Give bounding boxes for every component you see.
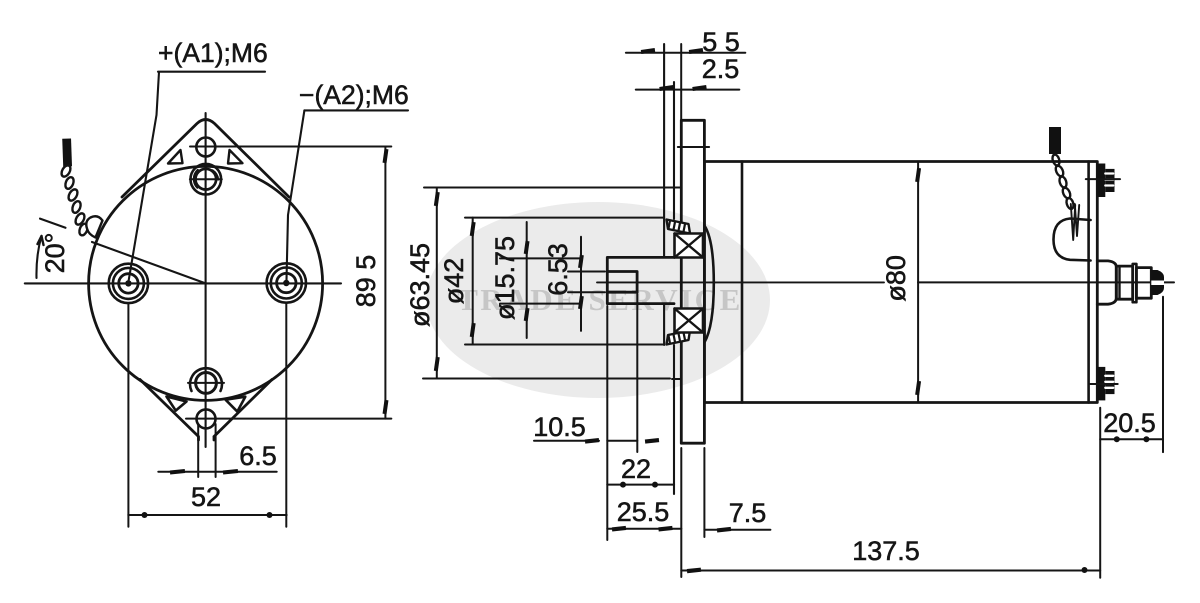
bearing retainer face line <box>663 44 665 257</box>
bottom bolt <box>190 368 222 391</box>
dim 2.5 line <box>636 89 740 91</box>
rear chain links <box>1051 154 1075 210</box>
dim o63.45 <box>424 187 681 189</box>
svg-text:7.5: 7.5 <box>729 498 767 528</box>
dim 25.5 <box>607 528 681 530</box>
main terminal bushing <box>1097 261 1116 304</box>
chain front links <box>60 164 89 237</box>
bottom-left cutout <box>167 397 187 411</box>
chain lug on flange <box>86 216 102 237</box>
52 dots <box>142 512 148 518</box>
bottom seal parallelogram <box>667 331 691 345</box>
dim 20.5 <box>1100 438 1163 440</box>
top bolt <box>191 164 222 195</box>
underline A2 <box>304 109 408 111</box>
flange plate <box>681 120 704 443</box>
svg-text:10.5: 10.5 <box>533 412 586 442</box>
20deg diagonal line <box>92 242 206 283</box>
52 ext right <box>285 303 287 527</box>
svg-text:89 5: 89 5 <box>351 255 381 308</box>
dim 10.5 <box>534 440 599 442</box>
bottom hole <box>197 409 216 428</box>
bottom terminal stud <box>1090 367 1118 401</box>
6.5 dim line <box>158 471 276 473</box>
20deg outer segment <box>40 219 66 228</box>
svg-text:5 5: 5 5 <box>702 27 740 57</box>
svg-text:25.5: 25.5 <box>617 497 670 527</box>
dim o42 <box>465 217 664 219</box>
89.5 dim line <box>384 147 386 419</box>
rear chain black bar <box>1049 127 1061 154</box>
flange top hole tick <box>678 146 709 148</box>
2.5 plate line <box>673 82 675 219</box>
svg-text:52: 52 <box>191 482 221 512</box>
nut <box>1136 268 1151 299</box>
rear cover seam <box>1087 162 1090 403</box>
89.5 dim: ext lines <box>190 146 391 148</box>
svg-text:20.5: 20.5 <box>1103 408 1156 438</box>
arrows 2.5 <box>659 85 673 91</box>
svg-text:137.5: 137.5 <box>852 536 920 566</box>
bottom bearing X box <box>675 309 704 333</box>
svg-text:ø63.45: ø63.45 <box>405 243 435 327</box>
ext 681 top <box>680 44 682 120</box>
horizontal centerline front view <box>25 282 341 284</box>
shaft slot <box>607 272 637 293</box>
motor body <box>704 162 1097 403</box>
bottom hole slot sides <box>197 424 199 477</box>
axis centerline <box>597 281 884 283</box>
svg-text:ø42: ø42 <box>439 258 469 305</box>
dim 7.5 <box>704 529 770 531</box>
svg-text:2.5: 2.5 <box>702 54 740 84</box>
bearing boss bulge <box>704 226 713 343</box>
rear cap wires <box>1071 204 1079 240</box>
main flange circle <box>89 166 323 400</box>
52 dim line <box>128 514 286 516</box>
top bearing X box <box>675 234 704 258</box>
leader +(A1) <box>128 72 159 282</box>
rear protective cap <box>1054 219 1091 261</box>
svg-text:22: 22 <box>621 454 651 484</box>
svg-text:ø80: ø80 <box>881 255 911 302</box>
vertical centerline front view <box>205 113 207 447</box>
main terminal stud body <box>1116 266 1132 299</box>
tip <box>1151 270 1164 295</box>
shaft end ext <box>606 306 608 540</box>
dim 6.53 <box>568 271 605 273</box>
bottom bolt crosshair <box>188 382 224 384</box>
top terminal stud <box>1086 164 1120 198</box>
svg-text:6.53: 6.53 <box>543 243 573 296</box>
dim 5 5 line <box>626 52 745 54</box>
bottom-right cutout <box>226 397 246 412</box>
svg-text:ø15.75: ø15.75 <box>490 236 520 320</box>
bottom tab outline <box>140 380 272 441</box>
shaft outline <box>607 257 674 303</box>
6.5 arrows <box>170 469 185 475</box>
left bolt <box>109 264 148 303</box>
underline A1 <box>158 71 265 73</box>
slot ext <box>636 294 638 452</box>
svg-text:6.5: 6.5 <box>239 441 277 471</box>
top-left cutout <box>168 150 183 164</box>
chain front: black bar <box>62 138 72 166</box>
washer <box>1133 264 1137 302</box>
dim o80 <box>917 162 919 403</box>
svg-text:20°: 20° <box>40 233 70 274</box>
top-right cutout <box>228 150 243 164</box>
watermark ellipse <box>426 202 770 398</box>
flange bottom tick <box>672 378 681 380</box>
right bolt <box>267 263 306 302</box>
dim o15.75 <box>500 257 580 259</box>
front housing seam <box>741 162 744 403</box>
dim 22 <box>607 484 674 486</box>
20deg arc <box>36 236 41 278</box>
dim 89.5 arrows <box>383 149 389 163</box>
top seal parallelogram <box>667 220 691 234</box>
svg-text:−(A2);M6: −(A2);M6 <box>299 80 409 110</box>
svg-text:+(A1);M6: +(A1);M6 <box>158 38 268 68</box>
dim 137.5 <box>681 570 1100 572</box>
top hole <box>196 138 215 157</box>
main terminal collar <box>1118 266 1120 299</box>
arrows 5 5 <box>641 48 655 54</box>
52 ext left <box>127 303 129 527</box>
top bolt crosshair <box>190 178 222 180</box>
top tab outline <box>122 120 289 198</box>
leader -(A2) <box>287 110 305 280</box>
